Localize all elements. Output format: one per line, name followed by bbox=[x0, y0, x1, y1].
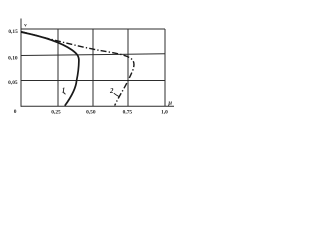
svg-text:1: 1 bbox=[62, 87, 65, 94]
svg-text:1,0: 1,0 bbox=[161, 109, 168, 115]
svg-text:2: 2 bbox=[109, 88, 114, 95]
svg-text:μ: μ bbox=[167, 99, 172, 106]
svg-text:0,75: 0,75 bbox=[123, 110, 133, 116]
svg-text:0,50: 0,50 bbox=[86, 109, 96, 115]
svg-text:0: 0 bbox=[14, 109, 17, 115]
svg-text:0,25: 0,25 bbox=[51, 109, 61, 115]
svg-text:0,15: 0,15 bbox=[8, 29, 18, 35]
svg-text:0,10: 0,10 bbox=[8, 56, 18, 62]
svg-text:0,05: 0,05 bbox=[8, 80, 18, 86]
